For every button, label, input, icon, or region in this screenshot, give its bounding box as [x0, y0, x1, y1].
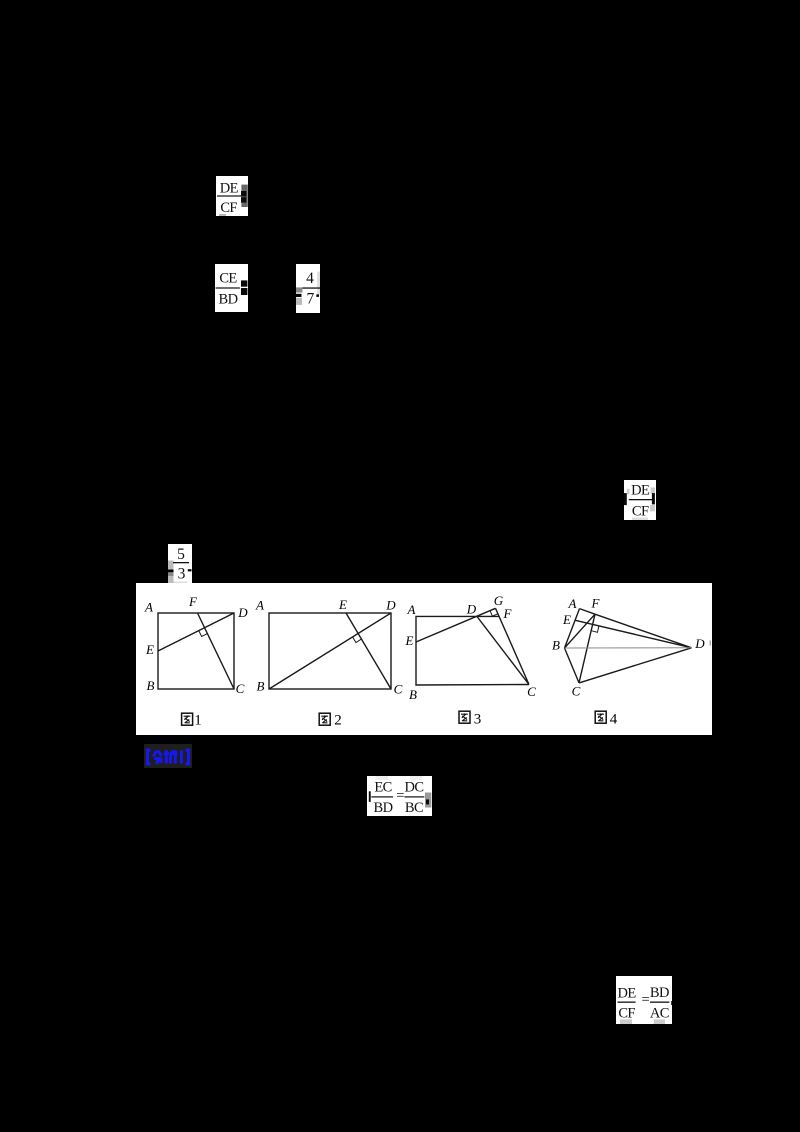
svg-text:BC: BC [405, 800, 423, 816]
svg-text:D: D [694, 636, 705, 651]
svg-text:F: F [188, 594, 198, 609]
svg-text:CF: CF [220, 200, 237, 216]
svg-text:DE: DE [618, 986, 637, 1002]
svg-text:D: D [385, 598, 396, 613]
svg-text:DE: DE [220, 181, 239, 197]
svg-text:BD: BD [219, 291, 238, 307]
svg-text:5: 5 [177, 546, 185, 563]
svg-text:DC: DC [405, 780, 424, 796]
svg-text:C: C [394, 682, 403, 697]
svg-text:2: 2 [334, 713, 342, 729]
svg-text:DE: DE [631, 482, 650, 498]
svg-text:B: B [552, 638, 560, 653]
svg-text:CF: CF [618, 1006, 635, 1022]
svg-text:E: E [145, 642, 154, 657]
svg-text:CE: CE [219, 270, 237, 286]
svg-text:A: A [255, 598, 264, 613]
svg-text:C: C [572, 684, 581, 699]
svg-text:A: A [568, 596, 577, 611]
svg-text:B: B [409, 687, 417, 702]
svg-text:D: D [466, 602, 477, 617]
svg-text:4: 4 [610, 712, 618, 728]
svg-text:BD: BD [650, 985, 669, 1001]
svg-text:E: E [562, 612, 571, 627]
svg-text:BD: BD [374, 800, 393, 816]
svg-text:B: B [147, 678, 155, 693]
svg-text:=: = [642, 992, 650, 1008]
svg-text:=: = [396, 788, 404, 804]
svg-text:1: 1 [194, 713, 202, 729]
svg-text:E: E [405, 633, 414, 648]
svg-text:E: E [338, 597, 347, 612]
svg-text:D: D [237, 605, 248, 620]
svg-text:B: B [257, 679, 265, 694]
svg-text:CF: CF [632, 504, 649, 520]
svg-text:A: A [407, 602, 416, 617]
svg-text:F: F [591, 596, 601, 611]
svg-text:A: A [144, 600, 153, 615]
svg-text:F: F [503, 606, 513, 621]
svg-text:EC: EC [374, 780, 391, 796]
svg-text:G: G [494, 593, 504, 608]
svg-text:AC: AC [650, 1006, 669, 1022]
svg-text:7: 7 [307, 290, 315, 307]
svg-text:C: C [527, 684, 536, 699]
svg-text:3: 3 [474, 712, 482, 728]
svg-text:C: C [236, 681, 245, 696]
svg-text:3: 3 [178, 566, 186, 583]
svg-text:4: 4 [306, 270, 314, 287]
